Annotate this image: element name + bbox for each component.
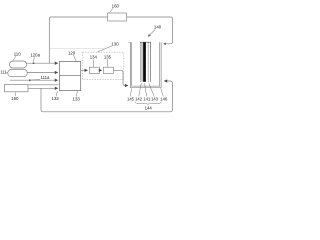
leader 135 [106, 59, 109, 67]
wire from tank 110 into controller [27, 62, 58, 64]
membrane 141 thick bar [143, 42, 146, 82]
leader 145 [130, 88, 131, 96]
node 120a junction dot [33, 62, 35, 64]
electrode 145 dotted [139, 43, 141, 82]
power box 160 [108, 13, 127, 21]
leader 110 [13, 56, 16, 60]
svg-text:144: 144 [145, 106, 153, 111]
electrode plate 146 [149, 42, 151, 81]
leader 134 [92, 59, 95, 67]
leader 141 [145, 83, 147, 96]
svg-text:130: 130 [111, 41, 119, 46]
leader 130 [97, 46, 112, 52]
svg-text:110: 110 [14, 51, 22, 56]
wire box 134 to box 135 [99, 69, 101, 71]
svg-text:160: 160 [112, 3, 120, 8]
wire 111a into controller [10, 79, 58, 81]
tank 110 [10, 61, 27, 68]
svg-text:134: 134 [90, 55, 98, 60]
electrode plate 142 [141, 42, 143, 81]
box 134 [89, 67, 99, 73]
divider of controller box [60, 74, 81, 76]
cell 140 inner wall [132, 42, 160, 86]
svg-text:150: 150 [11, 96, 19, 101]
svg-text:120a: 120a [30, 53, 40, 58]
electrode 143 dotted [147, 43, 149, 82]
svg-text:143: 143 [151, 97, 159, 102]
leader 150 [14, 92, 17, 96]
node 111a junction dot [29, 79, 31, 81]
svg-text:146: 146 [160, 97, 168, 102]
faint fold line [50, 47, 104, 49]
wire from tank 111 into controller [27, 72, 58, 74]
supply box 150 [5, 85, 29, 92]
svg-text:120: 120 [68, 50, 76, 55]
leader 143 [149, 83, 154, 96]
leader 160 [110, 8, 113, 13]
svg-text:145: 145 [127, 97, 135, 102]
wire top rail right side, right vertical and bottom rail [127, 17, 173, 44]
svg-text:142: 142 [135, 97, 143, 102]
box 135 [103, 67, 113, 73]
svg-text:132: 132 [52, 96, 60, 101]
wire top rail from node A to power box 160 [49, 17, 107, 63]
leader 140 arrow [148, 30, 155, 37]
leader 132 [56, 91, 58, 96]
tank 111 [8, 69, 27, 76]
wire bottom rail from supply junction up into cell right side [41, 81, 172, 112]
svg-text:133: 133 [73, 96, 81, 101]
leader 120 [73, 55, 76, 61]
controller box 120 [60, 62, 81, 91]
cell assembly top cap [140, 41, 151, 43]
brace under 142 141 143 [135, 102, 161, 105]
svg-text:140: 140 [154, 24, 162, 29]
leader 120a [33, 57, 36, 62]
leader 111a [31, 79, 40, 82]
wire controller to box 134 [81, 69, 88, 71]
leader 111 [6, 72, 8, 74]
svg-text:111a: 111a [41, 75, 51, 80]
cell flange left [129, 41, 131, 43]
leader 146 [161, 88, 164, 96]
svg-text:135: 135 [104, 55, 112, 60]
cell 140 outer wall [130, 42, 161, 87]
wire from supply 150 into controller and down to bottom rail [28, 87, 58, 89]
dashed unit box 130 [83, 52, 124, 79]
wire pair upper line from supply 150 [28, 84, 59, 86]
svg-text:111: 111 [0, 70, 7, 75]
wire box 135 down into cell 140 [113, 70, 127, 85]
leader 142 [139, 83, 141, 96]
leader 133 [76, 91, 77, 96]
svg-text:141: 141 [143, 97, 151, 102]
